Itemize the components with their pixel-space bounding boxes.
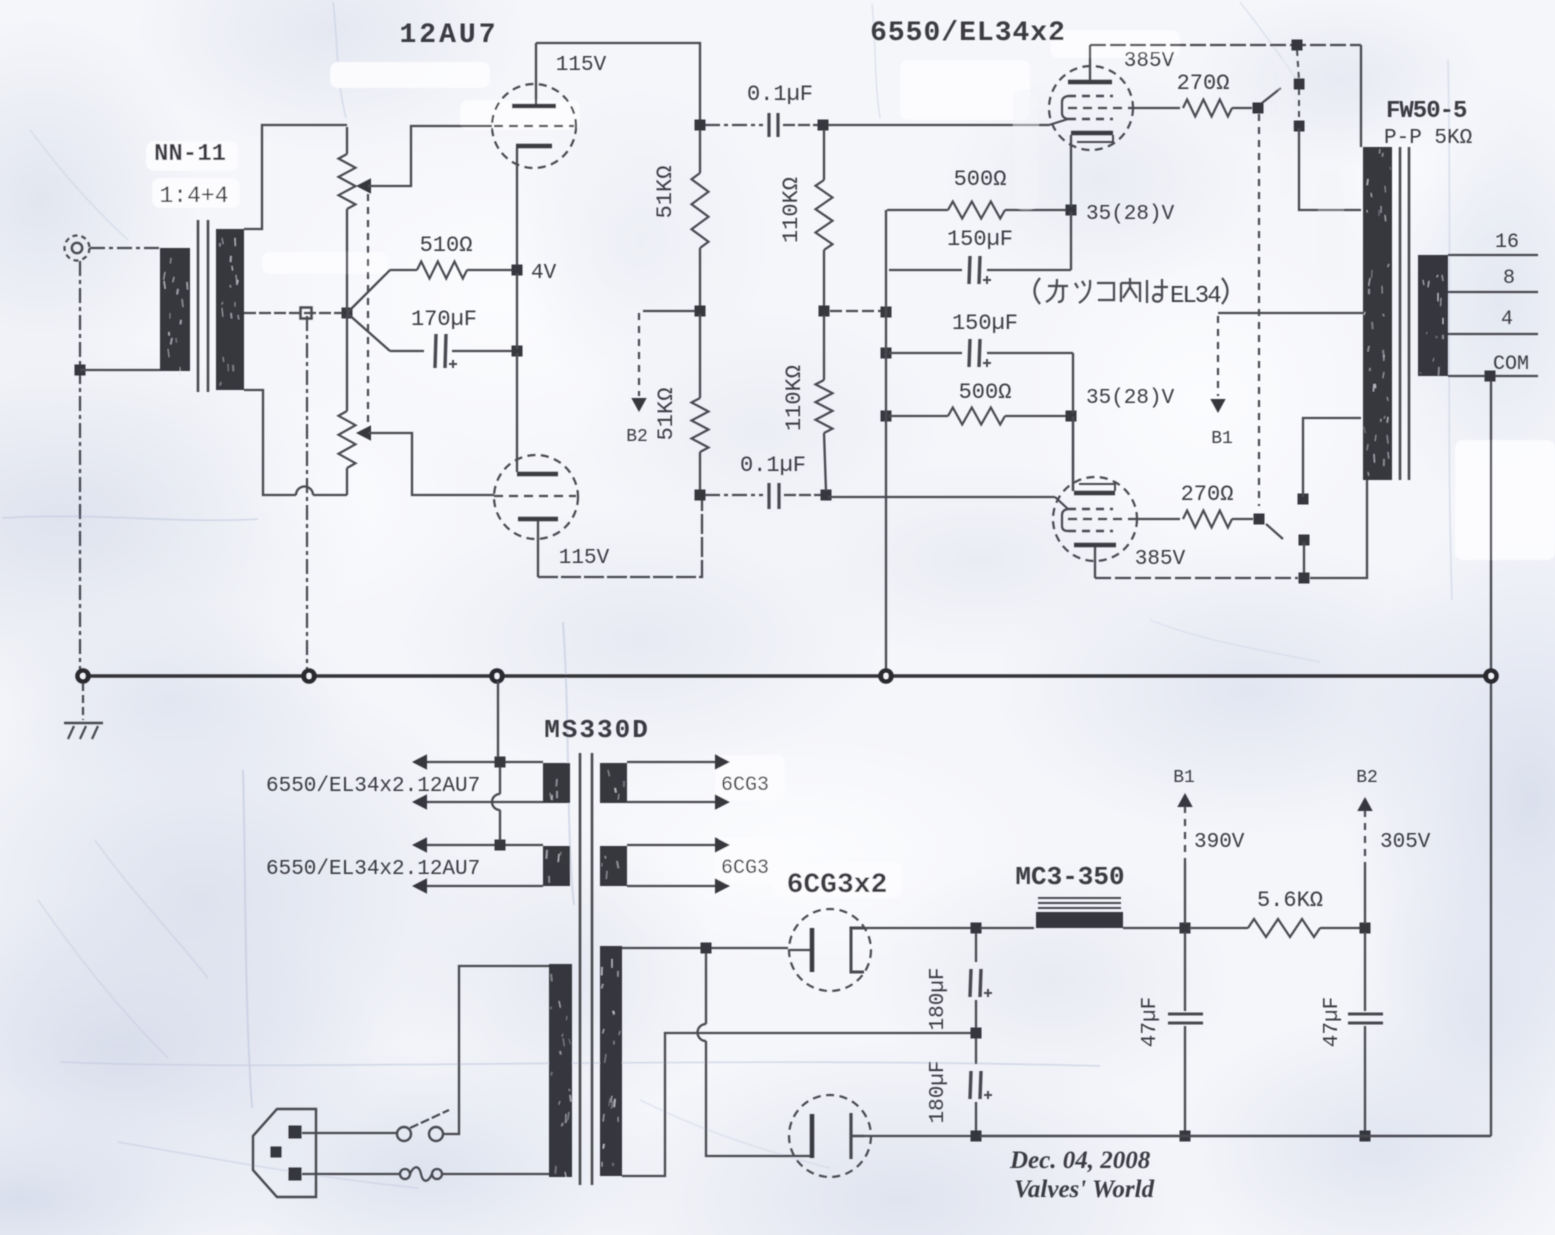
svg-text:500Ω: 500Ω (954, 167, 1007, 192)
svg-text:8: 8 (1503, 267, 1515, 290)
svg-text:P-P 5KΩ: P-P 5KΩ (1384, 127, 1472, 150)
svg-text:170µF: 170µF (411, 307, 477, 332)
svg-text:305V: 305V (1380, 831, 1431, 854)
svg-text:COM: COM (1493, 353, 1529, 376)
svg-text:385V: 385V (1135, 548, 1186, 571)
svg-text:0.1µF: 0.1µF (740, 453, 806, 478)
svg-text:150µF: 150µF (952, 311, 1018, 336)
svg-text:B2: B2 (1356, 768, 1378, 788)
svg-text:Valves' World: Valves' World (1014, 1176, 1155, 1203)
svg-text:51KΩ: 51KΩ (654, 388, 679, 441)
svg-text:0.1µF: 0.1µF (747, 82, 813, 107)
svg-text:4V: 4V (531, 262, 557, 285)
svg-text:510Ω: 510Ω (420, 233, 473, 258)
svg-text:6550/EL34x2.12AU7: 6550/EL34x2.12AU7 (266, 858, 480, 881)
svg-text:EL34: EL34 (1170, 283, 1221, 310)
svg-text:180µF: 180µF (927, 967, 950, 1030)
svg-text:6550/EL34x2: 6550/EL34x2 (870, 18, 1066, 49)
svg-text:MS330D: MS330D (544, 715, 650, 745)
svg-text:Dec. 04, 2008: Dec. 04, 2008 (1009, 1147, 1151, 1174)
svg-text:270Ω: 270Ω (1177, 71, 1230, 96)
svg-text:5.6KΩ: 5.6KΩ (1257, 888, 1323, 913)
svg-text:NN-11: NN-11 (154, 141, 226, 168)
svg-text:MC3-350: MC3-350 (1015, 862, 1124, 892)
svg-text:385V: 385V (1124, 50, 1175, 73)
svg-text:6CG3: 6CG3 (721, 774, 769, 797)
svg-text:B2: B2 (626, 427, 648, 447)
svg-text:270Ω: 270Ω (1181, 482, 1234, 507)
svg-text:6550/EL34x2.12AU7: 6550/EL34x2.12AU7 (266, 775, 480, 798)
svg-text:B1: B1 (1173, 768, 1195, 788)
svg-text:12AU7: 12AU7 (399, 20, 498, 51)
svg-text:6CG3: 6CG3 (721, 857, 769, 880)
svg-text:B1: B1 (1211, 429, 1233, 449)
svg-text:115V: 115V (559, 547, 610, 570)
svg-text:51KΩ: 51KΩ (653, 166, 678, 219)
svg-text:16: 16 (1495, 231, 1519, 254)
svg-text:4: 4 (1501, 308, 1513, 331)
svg-text:47µF: 47µF (1139, 997, 1162, 1047)
svg-text:110KΩ: 110KΩ (782, 365, 807, 431)
svg-text:500Ω: 500Ω (959, 380, 1012, 405)
svg-text:110KΩ: 110KΩ (779, 177, 804, 243)
svg-text:390V: 390V (1194, 831, 1245, 854)
svg-text:6CG3x2: 6CG3x2 (787, 870, 888, 901)
svg-text:115V: 115V (556, 54, 607, 77)
svg-text:35(28)V: 35(28)V (1086, 203, 1175, 226)
svg-text:180µF: 180µF (927, 1060, 950, 1123)
svg-text:47µF: 47µF (1321, 997, 1344, 1047)
svg-text:1:4+4: 1:4+4 (159, 183, 228, 209)
svg-text:FW50-5: FW50-5 (1386, 98, 1467, 125)
svg-text:150µF: 150µF (947, 227, 1013, 252)
svg-text:35(28)V: 35(28)V (1086, 387, 1175, 410)
